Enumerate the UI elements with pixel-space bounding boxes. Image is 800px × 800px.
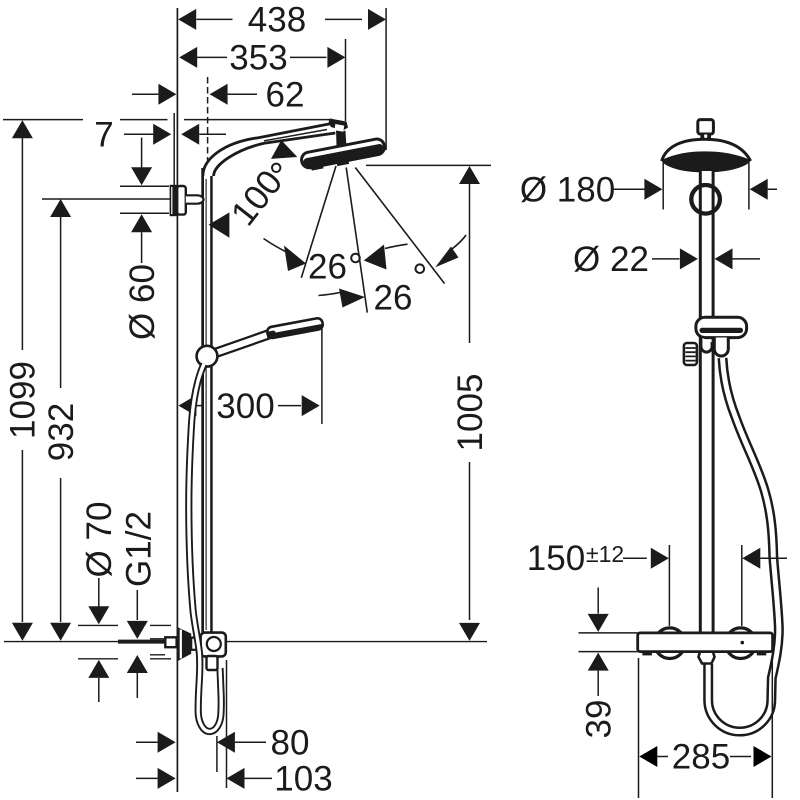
dimension 285 extension lines bbox=[639, 658, 773, 798]
arrow 438 right bbox=[368, 9, 386, 30]
svg-text:103: 103 bbox=[274, 760, 332, 799]
dimension 285 bbox=[657, 756, 751, 758]
dimension O70 line bbox=[98, 578, 100, 702]
spray line B bbox=[346, 168, 367, 313]
dimension O180 bbox=[613, 188, 777, 190]
dimension 438 right extension line bbox=[385, 8, 387, 150]
wall reference line bbox=[176, 8, 178, 792]
hand shower hose (side) bbox=[189, 364, 221, 732]
arrow 7 left bbox=[153, 124, 171, 145]
union nut left bbox=[642, 652, 652, 656]
spray line A bbox=[301, 166, 336, 278]
arrow 103 left bbox=[158, 768, 176, 789]
angle 100 deg arrow at arm bbox=[271, 140, 297, 159]
top-of-unit extension line bbox=[3, 119, 333, 121]
dimension 932 top extension line bbox=[42, 198, 170, 200]
arrow O60 bottom bbox=[131, 214, 152, 232]
valve (side view) bbox=[118, 627, 226, 662]
arrow 353 left bbox=[179, 47, 197, 68]
O60 extension lines bbox=[120, 186, 169, 213]
angle 100 deg arrow at pipe bbox=[209, 212, 230, 237]
dimension 353 bbox=[197, 56, 327, 58]
overhead shower dome bbox=[662, 139, 751, 161]
dimension 39 bbox=[579, 588, 638, 697]
bracket back reference line (7 mm gap) bbox=[173, 113, 175, 185]
arrow O70 bottom bbox=[88, 660, 109, 678]
arrow 62 right bbox=[210, 84, 228, 105]
dimension 353 right extension line bbox=[345, 39, 347, 121]
hose nut below valve bbox=[207, 656, 218, 670]
svg-text:62: 62 bbox=[266, 76, 305, 115]
svg-text:Ø 60: Ø 60 bbox=[123, 264, 162, 340]
svg-text:Ø 22: Ø 22 bbox=[573, 240, 649, 279]
supply stub thick line bbox=[118, 640, 166, 644]
svg-text:7: 7 bbox=[94, 116, 113, 155]
dimension O60 line bbox=[141, 138, 143, 264]
arrow G12 bottom bbox=[127, 655, 148, 673]
svg-text:1099: 1099 bbox=[4, 361, 43, 439]
svg-text:±12: ±12 bbox=[586, 541, 624, 567]
svg-text:932: 932 bbox=[42, 403, 81, 461]
arrow 1099 top bbox=[12, 120, 33, 138]
dimension 103 bbox=[136, 777, 272, 779]
svg-text:150: 150 bbox=[527, 539, 585, 578]
holder fork bbox=[701, 338, 712, 353]
dimension 150 extension lines bbox=[669, 545, 741, 626]
svg-text:39: 39 bbox=[580, 700, 619, 739]
wall bracket bbox=[170, 185, 204, 216]
dimension 1099 line bbox=[21, 138, 23, 622]
dimension G1/2 line bbox=[136, 590, 138, 698]
arrow 80 left bbox=[158, 732, 176, 753]
arrow 932 bottom bbox=[50, 623, 71, 641]
svg-text:300: 300 bbox=[216, 387, 274, 426]
dimension 80 bbox=[136, 741, 266, 743]
slider holder ring bbox=[197, 346, 218, 367]
dimension 932 line bbox=[60, 217, 62, 622]
arrow O60 top bbox=[131, 167, 152, 185]
temperature marker dot bbox=[741, 641, 745, 645]
hose (front) bbox=[708, 358, 779, 732]
arrow 62 left bbox=[158, 84, 176, 105]
spray line C bbox=[355, 168, 444, 284]
valve body bbox=[201, 633, 226, 657]
shower arm bbox=[203, 123, 336, 176]
hand shower (front) bbox=[696, 317, 747, 337]
dimension 80 right extension line bbox=[216, 736, 218, 772]
dimension O22 bbox=[652, 258, 760, 260]
riser pipe bbox=[201, 168, 212, 633]
arrow 932 top bbox=[50, 199, 71, 217]
pipe centre dashed line bbox=[207, 77, 209, 170]
arm inner highlight line bbox=[264, 130, 327, 141]
hose connector below valve bbox=[699, 652, 715, 664]
label 300 bbox=[212, 389, 278, 423]
svg-text:Ø 70: Ø 70 bbox=[80, 502, 119, 578]
svg-text:1005: 1005 bbox=[451, 374, 490, 452]
pipe ring bbox=[691, 185, 720, 214]
svg-text:G1/2: G1/2 bbox=[120, 511, 159, 587]
26 deg second left arrow bbox=[339, 289, 365, 308]
svg-text:80: 80 bbox=[271, 724, 310, 763]
arrow 300 right bbox=[302, 395, 320, 416]
arrow 353 right bbox=[327, 47, 345, 68]
top knob bbox=[698, 120, 714, 134]
O70 extension lines bbox=[78, 625, 171, 658]
arrow 80 right bbox=[217, 732, 235, 753]
svg-text:285: 285 bbox=[672, 738, 730, 777]
G1/2 nipple bbox=[165, 637, 176, 647]
shower face band bbox=[661, 151, 751, 172]
valve union escutcheon right bbox=[725, 628, 756, 659]
dimension 1005 line bbox=[469, 184, 471, 620]
svg-text:Ø 180: Ø 180 bbox=[520, 170, 615, 209]
dimension 300 bbox=[196, 405, 301, 407]
thermostat bar bbox=[638, 633, 773, 652]
svg-text:26: 26 bbox=[308, 248, 347, 287]
svg-text:438: 438 bbox=[248, 1, 306, 40]
neck bbox=[191, 638, 200, 650]
hand shower wand (side) bbox=[215, 333, 273, 353]
arrow 1099 bottom bbox=[12, 623, 33, 641]
G1/2 extension lines bbox=[150, 639, 165, 655]
bottom reference centre line bbox=[4, 641, 487, 643]
dimension 438 bbox=[197, 18, 363, 20]
dimension 300 right extension line bbox=[321, 327, 323, 424]
svg-text:26: 26 bbox=[374, 279, 413, 318]
arrow G12 top bbox=[127, 621, 148, 639]
dimension O180 extension lines bbox=[663, 163, 749, 210]
dimension 150 +-12 bbox=[623, 557, 787, 559]
26 deg first left arrow bbox=[284, 246, 306, 272]
dimension 103 right extension line bbox=[226, 660, 228, 788]
arrow 1005 bottom bbox=[459, 623, 480, 641]
arrow 1005 top bbox=[459, 166, 480, 184]
dimension 1005 top extension line bbox=[366, 164, 491, 166]
26 deg second right arrow bbox=[435, 247, 458, 268]
escutcheon cone bbox=[177, 627, 192, 662]
dimension 62 bbox=[132, 93, 257, 95]
arrow 300 left bbox=[178, 395, 196, 416]
dimension 7 bbox=[124, 133, 226, 135]
union nut right bbox=[757, 652, 767, 656]
arrow 438 left bbox=[178, 9, 196, 30]
head joint bbox=[329, 119, 349, 149]
holder knob bbox=[684, 343, 697, 365]
arrow 103 right bbox=[227, 768, 245, 789]
svg-text:353: 353 bbox=[229, 39, 287, 78]
valve union escutcheon left bbox=[655, 628, 686, 659]
arrow O70 top bbox=[88, 606, 109, 624]
26 deg first right arrow bbox=[364, 245, 387, 270]
arrow 7 right bbox=[181, 124, 199, 145]
overhead shower (side) bbox=[300, 138, 386, 173]
front pipe bbox=[699, 171, 715, 633]
